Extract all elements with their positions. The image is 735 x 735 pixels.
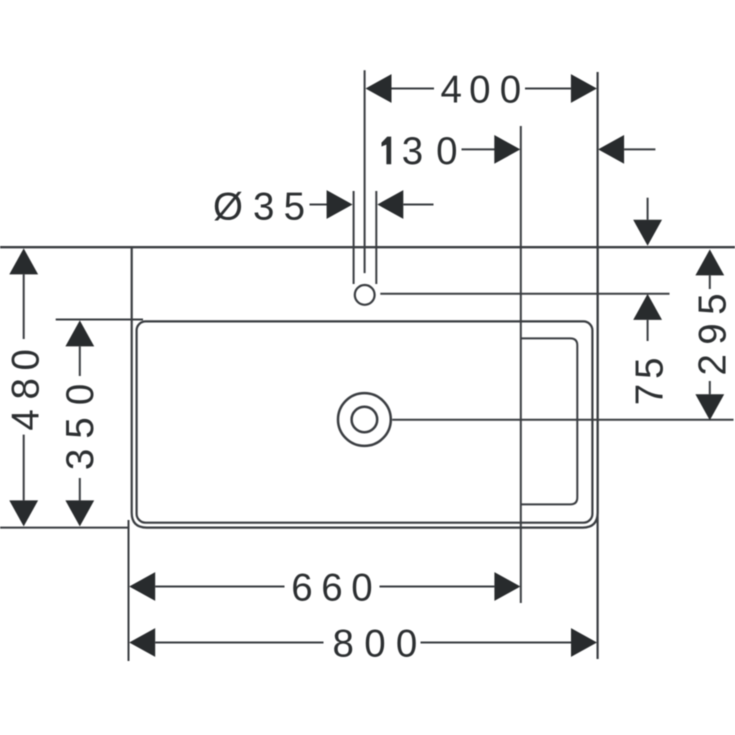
svg-text:0: 0 (364, 622, 385, 665)
svg-text:0: 0 (396, 622, 417, 665)
svg-text:0: 0 (5, 349, 48, 370)
svg-text:8: 8 (5, 378, 48, 399)
svg-text:5: 5 (59, 417, 102, 438)
svg-text:4: 4 (440, 68, 461, 111)
svg-text:6: 6 (291, 567, 312, 610)
svg-text:0: 0 (500, 68, 521, 111)
svg-text:4: 4 (5, 409, 48, 430)
svg-text:2: 2 (691, 354, 734, 375)
svg-text:Ø: Ø (213, 186, 243, 229)
svg-text:0: 0 (351, 567, 372, 610)
svg-text:5: 5 (691, 293, 734, 314)
svg-text:3: 3 (253, 186, 274, 229)
svg-text:5: 5 (628, 357, 671, 378)
svg-text:0: 0 (469, 68, 490, 111)
svg-text:0: 0 (59, 384, 102, 405)
svg-text:5: 5 (284, 186, 305, 229)
svg-text:0: 0 (436, 130, 457, 173)
svg-text:3: 3 (402, 130, 423, 173)
svg-text:7: 7 (628, 384, 671, 405)
svg-text:8: 8 (332, 622, 353, 665)
svg-text:3: 3 (59, 449, 102, 470)
svg-text:6: 6 (321, 567, 342, 610)
svg-text:9: 9 (691, 323, 734, 344)
